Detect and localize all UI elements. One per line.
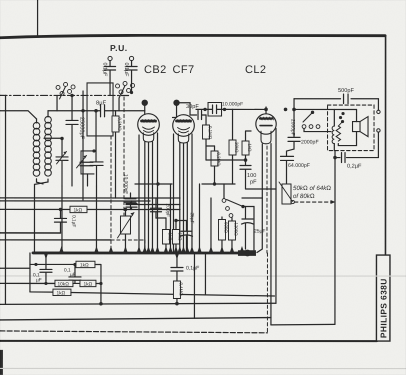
terminal PU left	[108, 56, 112, 60]
capacitor 2000pF	[287, 119, 319, 156]
junction	[81, 109, 84, 112]
wire tune common drop	[62, 186, 97, 253]
variable capacitor C-tune1	[56, 138, 68, 186]
wire y233	[0, 232, 60, 234]
transformer secondary	[336, 126, 356, 146]
capacitor 0,1uF left	[54, 209, 76, 233]
bus junctions	[43, 246, 244, 260]
potentiometer volume	[117, 209, 134, 253]
wire left vertical bus	[4, 95, 6, 304]
wire bus start drop	[29, 253, 31, 292]
resistor 0,1MOhm R2	[203, 115, 215, 160]
wire step to HT	[271, 323, 335, 326]
junction	[333, 156, 337, 160]
border frame right	[384, 36, 386, 256]
mech link dashed CL2 down	[266, 253, 268, 333]
wire row y292 sloped	[30, 291, 53, 293]
wire tune link	[44, 137, 63, 139]
capacitor 0,1uF mains right	[64, 264, 81, 283]
wire extra drop2	[210, 198, 212, 253]
wire row y317	[0, 317, 271, 320]
junction	[59, 208, 62, 211]
loudspeaker dashed box	[328, 105, 375, 151]
mech link dashes to pot	[111, 240, 145, 252]
wire 2000pF lead	[293, 99, 295, 138]
switch mains S4	[222, 184, 262, 250]
label pot value handwritten	[293, 185, 331, 200]
wire CF7 cathode drop	[169, 184, 171, 253]
capacitor 0,1uF PU right	[123, 61, 137, 92]
capacitor 0,1uF PU left	[102, 61, 116, 96]
junction	[92, 149, 95, 152]
resistor 1kOhm R5	[242, 131, 252, 160]
capacitor 0,1uF decoupling	[171, 253, 199, 281]
wire L1 bottom	[37, 179, 44, 184]
wire CL2 leads	[257, 144, 262, 253]
PHILIPS 638U label box	[376, 255, 390, 341]
wire CF7 leads	[173, 134, 192, 253]
capacitor padding right	[90, 111, 103, 186]
resistor 0,4MOhm	[173, 281, 183, 304]
wire mains dashed	[0, 331, 267, 333]
resistor 1200Ohm R9	[228, 218, 238, 250]
switch S3 output tap	[302, 111, 331, 132]
border frame bottom	[0, 340, 377, 342]
switch S2 band	[116, 81, 135, 110]
junction arrow	[330, 200, 335, 204]
resistor 1kOhm R6	[162, 218, 172, 253]
capacitor 100pF	[240, 160, 257, 189]
coil L1 antenna	[36, 119, 38, 123]
junction	[175, 302, 179, 306]
scan artifact line	[0, 275, 406, 277]
wire HT line	[196, 108, 208, 110]
terminal PU right	[129, 56, 133, 60]
antenna lead to top edge	[37, 0, 39, 36]
junction	[99, 302, 103, 306]
capacitor 10.000pF boxed	[208, 102, 243, 117]
wire cathode	[176, 219, 187, 221]
capacitor 200pF	[150, 198, 170, 218]
wire anode to output	[294, 108, 357, 110]
scan mark left edge bar	[0, 350, 3, 375]
resistor 10kOhm	[55, 280, 73, 287]
tube CL2 top lead	[265, 107, 267, 114]
loudspeaker	[353, 109, 369, 136]
wire anode rail	[222, 108, 266, 110]
wire CL2 cathode drop	[275, 189, 277, 303]
junction	[34, 263, 37, 266]
capacitor 10.000pF lower	[123, 174, 136, 210]
wire row y264	[30, 263, 76, 265]
variable capacitor padder	[77, 151, 95, 186]
junction	[124, 208, 127, 211]
capacitor above potentiometer	[126, 201, 137, 210]
junction	[73, 263, 76, 266]
wire drop x194	[193, 253, 195, 318]
terminal output 1	[377, 110, 380, 113]
mech link dashed pot wiper	[294, 201, 332, 203]
wire mains stub left	[0, 267, 30, 269]
chassis bus	[33, 252, 250, 255]
wire line y204.5	[126, 203, 180, 205]
mech link dashed	[110, 136, 112, 252]
wire HT down right	[334, 151, 336, 325]
mech link dashed CL2	[266, 146, 268, 253]
junction	[284, 108, 288, 112]
junction	[99, 282, 102, 285]
junction	[156, 182, 159, 185]
resistor 0,2MOhm R3	[211, 146, 221, 184]
wire antenna dash-dot line	[0, 94, 130, 96]
resistor 1kOhm horizontal	[70, 206, 87, 213]
mech link dashed 2	[123, 97, 125, 215]
switch S1 wave band	[56, 82, 75, 110]
capacitor 8uF electrolytic	[83, 99, 113, 116]
junction	[292, 108, 296, 112]
wire y240	[0, 239, 111, 241]
capacitor 25uF heater	[241, 207, 265, 250]
wire row y283	[0, 282, 55, 284]
junction	[203, 108, 206, 111]
resistor 5kOhm R7	[172, 220, 182, 253]
wire S2 to R1	[113, 110, 145, 112]
tube CB2 top cap	[141, 100, 149, 118]
junction	[94, 109, 98, 113]
wire long vertical left	[82, 91, 84, 200]
capacitor 25000pF	[66, 96, 85, 186]
resistor 1kOhm mains a	[76, 261, 101, 303]
transformer tap dots	[338, 112, 344, 126]
wire CF7 grid to 30pF	[180, 103, 197, 115]
resistor 1kOhm mains c	[53, 289, 71, 296]
tube CL2	[256, 114, 276, 144]
junction	[213, 182, 216, 185]
resistor 0,2MOhm R1	[112, 111, 122, 198]
wire grid stopper	[206, 159, 246, 161]
coil L2 tuning	[47, 111, 49, 117]
wire terminal 2 to 0,2uF	[335, 132, 378, 157]
capacitor 500pF	[338, 88, 354, 104]
wire extra drop	[198, 184, 200, 253]
wire AVC line y198	[0, 197, 180, 199]
wire heater line y209.5	[0, 208, 180, 210]
capacitor 30pF	[186, 104, 206, 120]
tube CF7 top cap	[173, 100, 181, 118]
wire CL2 cathode	[246, 129, 276, 190]
wire CL2 anode return drop	[270, 144, 272, 325]
oscillator block box	[87, 83, 113, 136]
wire row y303	[0, 303, 276, 304]
wire screen rail	[202, 183, 235, 185]
wire line y201	[0, 200, 150, 202]
wire S1 to tuning	[48, 110, 83, 112]
capacitor 25uF electrolytic	[180, 212, 194, 253]
resistor 20kOhm R4	[229, 109, 239, 184]
junction	[60, 137, 63, 140]
terminal output 2	[377, 129, 380, 132]
junction	[70, 94, 73, 97]
wire row y292 right	[71, 293, 275, 296]
wire cathode rail CF7	[135, 183, 172, 185]
tube CB2	[138, 114, 160, 142]
wire CB2 leads	[139, 133, 158, 253]
scan artifact line	[0, 367, 406, 369]
bus end blob	[238, 250, 256, 256]
border frame top	[0, 35, 385, 38]
junction	[223, 108, 226, 111]
wire L2 bottom to node	[34, 179, 48, 253]
junction big	[244, 250, 251, 257]
junction	[244, 158, 248, 162]
wire drop x205	[204, 253, 206, 295]
resistor 1kOhm mains b	[73, 280, 101, 287]
tube CF7	[173, 115, 195, 143]
junction	[264, 108, 268, 112]
junction	[44, 282, 47, 285]
transformer output primary	[332, 109, 335, 150]
capacitor 0,1uF mains left	[33, 256, 52, 284]
wire feedback top	[294, 99, 378, 111]
wire aerial input	[0, 111, 37, 119]
capacitor 0,2uF	[342, 153, 363, 170]
capacitor 64.000pF	[281, 156, 310, 184]
potentiometer 50kOhm	[279, 182, 294, 204]
resistor 600Ohm R8	[218, 217, 228, 249]
junction	[174, 219, 177, 222]
